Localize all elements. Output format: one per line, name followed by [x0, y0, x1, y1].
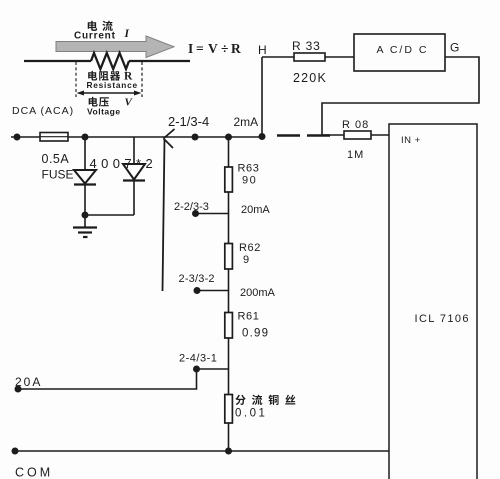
svg-text:FUSE: FUSE — [42, 168, 74, 182]
svg-text:220K: 220K — [293, 71, 327, 85]
node contact 2-3 — [194, 287, 201, 294]
resistor R33 220K — [294, 53, 325, 61]
svg-text:V: V — [208, 41, 218, 56]
wire 2-4 tap — [197, 368, 229, 370]
svg-text:0.01: 0.01 — [235, 408, 267, 420]
IC U1 ICL7106 — [389, 124, 477, 479]
resistor shunt 0.01 — [225, 395, 233, 424]
node contact 2-4 — [193, 366, 200, 373]
wire 20A line — [18, 369, 197, 389]
label 电阻器 R Resistance — [87, 71, 138, 90]
svg-text:200mA: 200mA — [240, 287, 276, 299]
svg-text:A C/D C: A C/D C — [377, 44, 429, 56]
current flow arrow — [56, 36, 174, 58]
ground — [73, 215, 97, 237]
voltage dimension arrow — [77, 91, 142, 96]
block AC/DC converter — [354, 34, 445, 71]
svg-text:G: G — [450, 41, 459, 55]
svg-text:=: = — [196, 41, 204, 56]
label 分流铜丝 0.01 — [235, 395, 295, 420]
wire fuse to switch junction — [68, 136, 262, 138]
node diode tap — [82, 134, 89, 141]
svg-text:R62: R62 — [239, 242, 261, 254]
node chain bottom — [225, 448, 232, 455]
svg-text:I: I — [124, 28, 130, 40]
resistor R61 0.99 — [225, 313, 233, 339]
svg-text:R: R — [231, 41, 241, 56]
dimension dashed line right — [141, 62, 143, 97]
svg-text:20mA: 20mA — [241, 204, 270, 216]
wire resistor chain — [228, 137, 230, 451]
svg-text:0.5A: 0.5A — [42, 152, 70, 166]
svg-text:90: 90 — [242, 175, 257, 187]
svg-text:0.99: 0.99 — [242, 328, 269, 340]
svg-text:R61: R61 — [238, 311, 260, 323]
label 0.5A FUSE — [42, 152, 74, 182]
wire to R08 — [322, 134, 344, 136]
wire input to fuse — [11, 136, 40, 138]
svg-text:IN +: IN + — [401, 135, 421, 146]
wire 2-2 tap — [195, 213, 229, 215]
node switch contact 2-1 — [192, 134, 199, 141]
formula I=V÷R — [188, 41, 241, 56]
wire R08 to IN+ — [371, 134, 389, 136]
switch wiper SW — [163, 129, 175, 291]
node 2mA junction — [259, 133, 266, 140]
wire H riser — [261, 57, 263, 137]
label R63 90 — [238, 163, 260, 187]
svg-text:2-3/3-2: 2-3/3-2 — [179, 273, 215, 285]
label 电压 V Voltage — [87, 97, 134, 117]
svg-text:2-2/3-3: 2-2/3-3 — [174, 201, 209, 213]
node contact 2-2 — [192, 210, 199, 217]
diode D1 — [74, 137, 96, 215]
svg-text:2-4/3-1: 2-4/3-1 — [179, 353, 217, 365]
resistor R62 9 — [225, 244, 233, 270]
fuse F1 0.5A — [40, 133, 68, 142]
resistor R63 90 — [225, 167, 233, 192]
wire diode bottoms — [85, 214, 134, 216]
node COM terminal — [12, 448, 19, 455]
svg-text:Resistance: Resistance — [87, 80, 138, 90]
svg-text:R 08: R 08 — [342, 119, 369, 131]
svg-text:ICL 7106: ICL 7106 — [415, 313, 470, 325]
resistor (illustration zigzag) — [91, 53, 129, 69]
node 20A terminal — [15, 386, 22, 393]
wire (illustration right lead) — [129, 60, 190, 62]
label 电流 Current I — [74, 21, 130, 42]
wire COM line — [15, 450, 389, 452]
wire dashed to R08 net — [277, 134, 330, 136]
svg-text:I: I — [188, 41, 193, 56]
label R62 9 — [239, 242, 261, 266]
svg-text:R 33: R 33 — [292, 39, 321, 53]
svg-text:4007*2: 4007*2 — [90, 156, 158, 171]
svg-text:1M: 1M — [347, 149, 364, 161]
svg-text:H: H — [258, 43, 267, 57]
svg-text:COM: COM — [15, 466, 53, 479]
wire R33 to AC/DC — [325, 56, 354, 58]
wire 2-3 tap — [197, 290, 229, 292]
svg-text:DCA (ACA): DCA (ACA) — [12, 105, 74, 117]
node chain top — [225, 134, 232, 141]
svg-text:Current: Current — [74, 31, 116, 42]
svg-text:÷: ÷ — [221, 41, 228, 56]
svg-text:9: 9 — [243, 254, 250, 266]
node diode common — [82, 212, 89, 219]
wire (illustration left lead) — [24, 60, 91, 62]
diode D2 — [123, 137, 145, 215]
svg-text:2-1/3-4: 2-1/3-4 — [168, 114, 209, 129]
dimension dashed line left — [75, 62, 77, 97]
wire H to R33 — [262, 56, 294, 58]
svg-text:2mA: 2mA — [234, 115, 259, 129]
svg-text:Voltage: Voltage — [87, 107, 121, 117]
node input terminal — [14, 134, 21, 141]
wire G net — [322, 57, 479, 135]
resistor R08 1M — [344, 131, 371, 139]
label R61 0.99 — [238, 311, 270, 340]
svg-text:R63: R63 — [238, 163, 260, 175]
